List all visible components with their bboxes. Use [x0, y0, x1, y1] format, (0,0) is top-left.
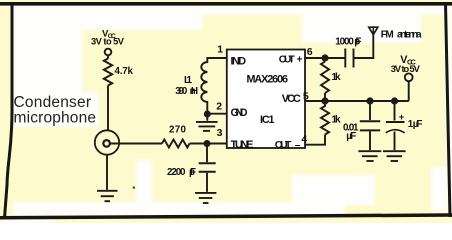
svg-text:3V to 5V: 3V to 5V	[391, 64, 421, 74]
svg-text:IND: IND	[231, 56, 247, 68]
white streak mid bottom	[136, 160, 152, 212]
svg-text:FM: FM	[381, 29, 394, 40]
capacitor 1uF polarized plates	[386, 121, 405, 123]
op IC box MAX2606	[227, 50, 305, 149]
svg-text:3: 3	[217, 127, 223, 139]
svg-text:1000: 1000	[335, 36, 354, 47]
svg-text:OUT: OUT	[279, 54, 296, 65]
svg-text:pF: pF	[354, 36, 361, 47]
wire rail to Vcc terminal right	[408, 81, 410, 101]
condenser microphone inner	[103, 140, 110, 147]
junction node TUNE	[204, 140, 211, 147]
Vcc terminal left	[105, 49, 112, 56]
stray speck	[133, 187, 135, 189]
svg-text:antenna: antenna	[397, 29, 422, 40]
svg-text:IC1: IC1	[260, 114, 275, 126]
svg-text:1k: 1k	[332, 72, 341, 83]
white below frame left	[0, 219, 55, 223]
resistor 270	[162, 140, 190, 148]
condenser microphone outer	[95, 130, 119, 154]
svg-text:5: 5	[303, 90, 309, 102]
wire 2200pF to ground	[206, 173, 208, 192]
svg-text:MAX2606: MAX2606	[247, 74, 289, 86]
capacitor 1000pF plates	[345, 49, 353, 68]
wire 1000pF to antenna	[354, 34, 374, 58]
svg-text:6: 6	[307, 46, 313, 58]
frame left border	[5, 3, 13, 218]
wire R1k to Vcc rail	[324, 93, 326, 101]
svg-text:VCC: VCC	[282, 93, 301, 105]
wire 0.01uF to ground	[369, 131, 371, 150]
svg-text:1: 1	[217, 43, 223, 55]
white patch bottom strip	[13, 202, 345, 216]
svg-text:–: –	[295, 140, 301, 151]
white patch upper band left-mid	[82, 14, 203, 30]
svg-text:microphone: microphone	[14, 109, 97, 126]
svg-text:+: +	[297, 54, 303, 65]
resistor 1k lower	[321, 104, 329, 135]
wire R1k lower to OUT- pin 4	[305, 135, 325, 145]
svg-text:µF: µF	[346, 131, 356, 142]
white right margin	[447, 5, 452, 215]
junction node Vcc/R1k	[321, 97, 328, 104]
white patch top right	[302, 13, 421, 43]
junction node 0.01uF	[366, 97, 373, 104]
frame bottom border	[0, 215, 452, 218]
svg-text:390: 390	[175, 86, 188, 97]
junction node 1uF	[391, 97, 398, 104]
svg-text:3V to 5V: 3V to 5V	[91, 36, 125, 46]
frame top border	[0, 2, 452, 6]
white patch left block	[13, 13, 82, 127]
ground (2200pF)	[195, 193, 216, 203]
Vcc terminal right	[405, 73, 413, 81]
ground (microphone)	[97, 191, 118, 201]
svg-text:GND: GND	[231, 107, 248, 119]
wire node to capacitor 2200pF	[206, 147, 208, 163]
svg-text:pF: pF	[189, 167, 196, 178]
Vcc rail pin 5	[305, 100, 409, 102]
wire mic to ground	[106, 155, 108, 190]
svg-text:nH: nH	[190, 86, 199, 97]
svg-text:2: 2	[216, 101, 222, 113]
resistor 4.7k	[104, 59, 112, 86]
white patch top strip	[13, 6, 448, 15]
wire R4.7k to microphone	[107, 86, 109, 132]
svg-text:4: 4	[301, 133, 307, 145]
svg-text:4.7k: 4.7k	[115, 66, 134, 77]
FM antenna symbol	[369, 27, 378, 34]
svg-text:270: 270	[169, 125, 187, 136]
wire mic to R270	[110, 143, 162, 145]
wire R270 to TUNE pin 3	[190, 143, 227, 145]
resistor 1k upper	[321, 62, 329, 94]
capacitor 0.01uF plates	[360, 121, 380, 130]
wire coil node to GND pin 2	[207, 113, 227, 115]
inductor L1 390nH with wire to pin 1	[201, 58, 227, 121]
ground (0.01uF)	[358, 151, 381, 161]
svg-text:L1: L1	[184, 75, 192, 86]
svg-text:µF: µF	[413, 119, 423, 130]
svg-text:1k: 1k	[332, 114, 341, 125]
wire 1uF to ground	[394, 132, 396, 151]
wire rail to capacitor 0.01uF	[369, 101, 371, 120]
svg-text:TUNE: TUNE	[231, 139, 254, 151]
white bulge around caption	[82, 92, 99, 127]
wire terminal to R 4.7k	[107, 55, 109, 58]
svg-text:+: +	[399, 112, 405, 123]
wire rail to capacitor 1uF	[394, 101, 396, 121]
svg-text:OUT: OUT	[275, 140, 292, 151]
frame right border	[446, 3, 451, 217]
caption Condenser microphone	[14, 94, 97, 126]
white patch bottom middle	[292, 175, 375, 205]
ground (pin 2)	[196, 122, 218, 131]
ground (1uF)	[383, 151, 406, 161]
junction node OUT+	[321, 54, 328, 61]
svg-text:2200: 2200	[167, 167, 186, 178]
white streak right	[431, 167, 446, 211]
junction node coil/GND	[204, 111, 211, 118]
capacitor 2200pF plates	[199, 163, 216, 172]
wire OUT+ pin 6 to capacitor 1000pF	[305, 57, 345, 59]
